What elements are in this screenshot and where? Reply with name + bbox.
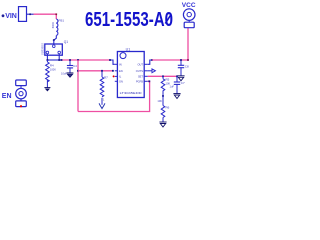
svg-text:600R: 600R [51, 22, 55, 28]
wire [47, 59, 61, 61]
svg-text:C7: C7 [181, 81, 185, 85]
connector J1 (+VIN) [19, 7, 27, 22]
svg-text:LT3045EDD: LT3045EDD [120, 91, 143, 95]
wire (PGFB loop) [78, 81, 150, 111]
wire (net EN/UV to U1) [78, 70, 113, 72]
test point TP (VCC) [183, 9, 195, 21]
svg-text:VCC: VCC [182, 2, 196, 9]
svg-text:R5: R5 [166, 78, 170, 82]
transistor Q1 [41, 40, 69, 55]
resistor R6 [157, 96, 169, 122]
svg-text:GN: GN [119, 79, 123, 83]
svg-text:VIN: VIN [5, 13, 17, 20]
ground (R7, open arrow) [99, 103, 105, 108]
inductor FB1 [51, 19, 65, 36]
IC U1 [115, 47, 148, 97]
node [55, 13, 57, 15]
port arrow (OUTS) [148, 70, 152, 72]
resistor R7 [100, 71, 108, 105]
node [77, 70, 79, 72]
node [180, 59, 182, 61]
wire (SET net) [148, 75, 177, 77]
right pin stubs [144, 63, 148, 65]
ground (R6) [159, 122, 166, 127]
node [162, 75, 164, 77]
node VCC [182, 2, 196, 28]
svg-text:EN: EN [2, 93, 12, 100]
connector (EN) [16, 80, 27, 86]
svg-text:C8: C8 [185, 64, 189, 68]
node EN [2, 80, 27, 107]
svg-text:EN: EN [119, 69, 123, 73]
svg-text:Q1: Q1 [64, 40, 68, 44]
svg-text:OUTS: OUTS [136, 69, 143, 73]
left pin stubs [115, 63, 118, 65]
svg-text:10uF: 10uF [61, 72, 67, 76]
capacitor C7 [170, 76, 185, 93]
wire (OUT to VCC) [152, 28, 188, 60]
wire [58, 54, 60, 60]
wire [54, 36, 57, 41]
resistor R4 [46, 60, 57, 88]
node [29, 13, 31, 15]
node (no-connect pin3, red) [113, 75, 115, 77]
wire [27, 13, 34, 15]
node [47, 59, 49, 61]
svg-text:IN: IN [119, 62, 122, 66]
wire (net IN to U1) [62, 59, 111, 61]
svg-text:SI2333DS: SI2333DS [41, 43, 45, 55]
node [151, 59, 153, 61]
svg-text:R7: R7 [104, 76, 108, 80]
wire (Z-bend into pin 1) [110, 60, 115, 64]
node [162, 95, 164, 97]
node [109, 59, 111, 61]
node (branch) [77, 59, 79, 61]
wire [53, 40, 55, 44]
node [176, 75, 178, 77]
wire [46, 54, 48, 60]
node [112, 70, 114, 72]
wire [34, 14, 57, 19]
ground (R4, arrow style) [44, 87, 50, 89]
capacitor C8 [178, 60, 189, 76]
ground (C4) [67, 73, 74, 77]
resistor R5 [161, 76, 170, 96]
ground (C8) [177, 76, 184, 81]
node [187, 59, 189, 61]
svg-text:R4: R4 [50, 64, 54, 68]
svg-text:1: 1 [103, 99, 105, 102]
wire (OUT Z-bend) [148, 60, 152, 64]
node [58, 59, 60, 61]
svg-text:R6: R6 [166, 106, 170, 110]
node [61, 59, 63, 61]
svg-text:OUT: OUT [138, 62, 144, 66]
svg-text:PGFB: PGFB [136, 79, 143, 83]
node +VIN [2, 13, 17, 20]
node [69, 59, 71, 61]
node [101, 70, 103, 72]
svg-text:651-1553-A0: 651-1553-A0 [85, 9, 173, 31]
ground (C7) [173, 94, 180, 99]
wire (vertical branch) [77, 60, 79, 112]
svg-text:100K: 100K [50, 68, 56, 72]
node [53, 39, 55, 41]
capacitor C4 [61, 60, 77, 76]
svg-text:1uF: 1uF [170, 85, 175, 89]
svg-text:SET: SET [138, 74, 143, 78]
svg-text:FB1: FB1 [59, 19, 65, 23]
svg-text:10K: 10K [157, 99, 162, 103]
svg-text:C4: C4 [73, 64, 77, 68]
svg-text:U1: U1 [126, 47, 131, 51]
node [148, 80, 150, 82]
